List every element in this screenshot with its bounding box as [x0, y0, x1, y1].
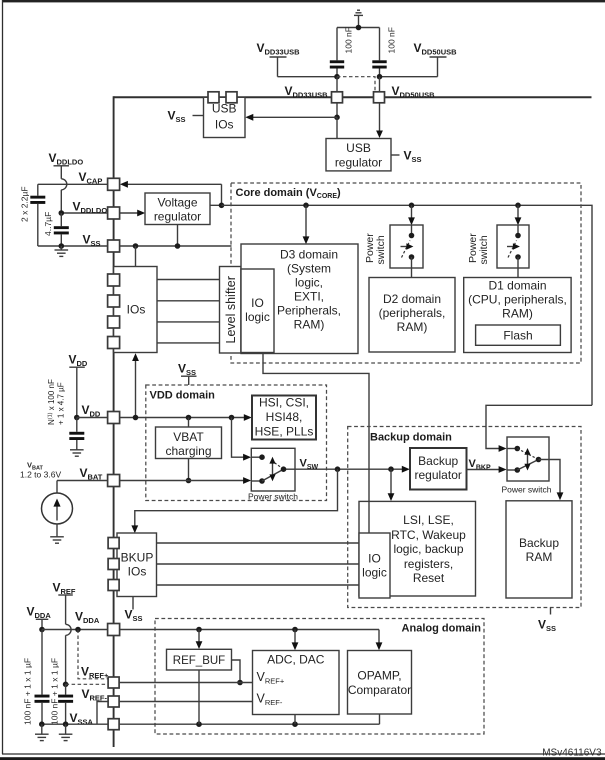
node junction at 337,117	[334, 115, 340, 121]
wire VDDA flag to pin	[42, 629, 108, 631]
svg-text:RAM): RAM)	[502, 307, 533, 321]
svg-text:Peripherals,: Peripherals,	[277, 304, 341, 318]
wire core supply rail (VCAP) to far right and down	[222, 205, 593, 405]
svg-text:Backup: Backup	[519, 536, 559, 550]
node VDD flag junction	[74, 415, 80, 421]
svg-text:Backup domain: Backup domain	[370, 432, 452, 444]
block D3 domain	[241, 244, 358, 354]
wire VSS tick below backup domain	[550, 608, 552, 615]
svg-text:HSE, PLLs: HSE, PLLs	[255, 425, 314, 439]
block IO logic (core)	[241, 269, 274, 353]
node core rail / PS2 junction	[515, 203, 521, 209]
block REF_BUF	[167, 649, 232, 670]
pin VDD	[108, 412, 120, 424]
block LSI, LSE, RTC ...	[359, 501, 476, 596]
svg-text:Flash: Flash	[503, 329, 532, 343]
svg-text:2 x 2.2µF: 2 x 2.2µF	[20, 186, 30, 222]
wire PS1 to D2 domain	[411, 257, 413, 278]
node C1 bottom junction	[334, 74, 340, 80]
pin VDDA	[108, 624, 120, 636]
pin USB IOs square 2	[226, 92, 237, 103]
svg-text:REF_BUF: REF_BUF	[173, 655, 225, 667]
ground (below right cap)	[59, 724, 73, 740]
block IO logic (backup)	[359, 533, 390, 598]
svg-text:RAM): RAM)	[397, 320, 428, 334]
svg-text:logic: logic	[362, 566, 387, 580]
svg-text:MSv46116V3: MSv46116V3	[542, 747, 602, 758]
wire VDD branch down to power switch upper input	[232, 418, 247, 458]
pin VDD33USB	[332, 92, 343, 103]
node VREF junction	[63, 682, 69, 688]
wire arrow down into REF_BUF	[198, 630, 200, 643]
wire ADC bottom to VSSA	[294, 715, 296, 725]
supply flag VDDLDO	[49, 151, 84, 213]
wire VCAP arrow line from junction to pin	[125, 183, 222, 185]
block Level shifter	[220, 267, 242, 354]
svg-text:EXTI,: EXTI,	[294, 290, 324, 304]
svg-text:(CPU, peripherals,: (CPU, peripherals,	[468, 293, 567, 307]
wire VSW output	[295, 468, 404, 470]
node VSW/BKUP junction	[335, 466, 341, 472]
wire VDDLDO junction to pin	[61, 212, 107, 214]
node VSSA/ADC junction	[292, 721, 298, 727]
svg-text:D2 domain: D2 domain	[383, 292, 441, 306]
wire VDD33USB pin down to junction	[336, 103, 338, 118]
svg-text:logic, backup: logic, backup	[393, 542, 463, 556]
pin VCAP	[108, 178, 120, 190]
node VDDA/REF_BUF junction	[196, 627, 202, 633]
pin VREF-	[108, 696, 119, 707]
node C2 bottom junction	[377, 74, 383, 80]
wire VSW junction down arrow into LSI block	[390, 469, 392, 495]
wire C2 junction to VDD50USB pin	[379, 77, 381, 92]
svg-text:LSI, LSE,: LSI, LSE,	[403, 513, 454, 527]
svg-text:Power switch: Power switch	[248, 492, 298, 502]
node VDD/power-switch junction	[229, 415, 235, 421]
ground (below left cap)	[35, 724, 49, 740]
wire left pin rail	[113, 96, 115, 747]
svg-text:Reset: Reset	[413, 571, 445, 585]
svg-text:regulator: regulator	[415, 468, 462, 482]
svg-text:4..7µF: 4..7µF	[43, 212, 53, 236]
node VDDA dashed-branch junction	[75, 627, 81, 633]
capacitor 2 x 2.2uF	[30, 184, 45, 246]
svg-text:switch: switch	[375, 235, 387, 264]
block D1 domain	[464, 278, 571, 353]
wire arrow down into D3 domain	[305, 205, 307, 237]
wire arrow into USB IOs right edge	[251, 116, 337, 118]
power switch PS4 box (backup domain)	[507, 437, 549, 481]
svg-text:(peripherals,: (peripherals,	[379, 306, 446, 320]
ground (top, above USB caps)	[354, 10, 363, 27]
block VBAT charging	[156, 427, 222, 459]
block Voltage regulator	[145, 193, 210, 225]
wire BKUP IOs to backup IO logic 1	[157, 542, 360, 544]
pin IOs square 2	[108, 295, 120, 307]
block Backup RAM	[506, 501, 572, 598]
ground (below current source)	[50, 537, 64, 543]
wire arrow down into power switch 1	[411, 205, 413, 218]
wire VBAT charging bottom to VBAT wire	[188, 459, 190, 481]
capacitor C1 100 nF	[330, 28, 344, 77]
svg-text:HSI48,: HSI48,	[266, 410, 303, 424]
wire backup power switch output to Backup RAM	[539, 460, 561, 494]
svg-text:BKUP: BKUP	[121, 551, 154, 565]
wire REF_BUF bottom to VSSA	[198, 670, 200, 724]
node VSS/IOs junction	[133, 243, 139, 249]
node VSSA/cap2 junction	[63, 721, 69, 727]
core domain dashed border	[231, 183, 581, 363]
svg-text:100 nF: 100 nF	[344, 27, 354, 53]
svg-text:Backup: Backup	[418, 454, 458, 468]
wire IO logic down / right / down to backup IO logic	[263, 353, 369, 534]
pin VREF+	[108, 677, 119, 688]
wire REF_BUF output to VREF+ wire	[232, 660, 241, 683]
wire VCAP rail feed down-left-down into backup power switch	[486, 405, 592, 448]
pin BKUP IOs square 3	[108, 580, 119, 591]
VDD domain dashed border	[146, 385, 327, 501]
svg-text:RAM): RAM)	[294, 318, 325, 332]
wire dashed optional link between VDD33USB and VDD50USB pin	[337, 77, 375, 92]
pin VSS	[108, 240, 120, 252]
block USB IOs	[204, 97, 246, 137]
node VBAT junction	[186, 478, 192, 484]
svg-text:switch: switch	[478, 235, 490, 264]
node core rail / D3 junction	[303, 203, 309, 209]
wire junction up-corner to core rail	[210, 184, 222, 205]
wire VDDA into analog domain	[120, 629, 379, 631]
wire BKUP IOs to backup IO logic 2	[157, 563, 360, 565]
node VSSA/REF_BUF junction	[196, 721, 202, 727]
wire VREF- tie down to VSSA	[97, 702, 108, 725]
svg-text:(System: (System	[287, 262, 331, 276]
node vreg output junction	[219, 203, 225, 209]
wire C1 junction to VDD33USB pin	[336, 77, 338, 92]
svg-text:IOs: IOs	[215, 118, 234, 132]
pin BKUP IOs square 2	[108, 559, 119, 570]
pin VDDLDO	[108, 207, 120, 219]
node VDDA flag junction	[39, 627, 45, 633]
supply flag VDD with decoupling	[69, 353, 88, 418]
wire IOs to level shifter 3	[157, 321, 220, 323]
svg-text:1.2 to 3.6V: 1.2 to 3.6V	[20, 470, 61, 480]
wire between caps tops	[337, 27, 380, 29]
wire VDD50USB pin down with arrow into USB regulator	[379, 103, 381, 132]
wire VBAT pin into domain with arrow to power switch lower input	[120, 480, 246, 482]
svg-text:RAM: RAM	[526, 550, 553, 564]
pin VBAT	[108, 475, 120, 487]
page frame bottom edge	[2, 753, 605, 755]
svg-text:registers,: registers,	[404, 557, 453, 571]
svg-text:regulator: regulator	[154, 210, 201, 224]
node VDDA/ADC junction	[292, 627, 298, 633]
svg-text:VDD domain: VDD domain	[150, 390, 216, 402]
power switch PS1 box	[390, 225, 423, 268]
node VDD/IOs junction	[133, 415, 139, 421]
power switch PS3 box (VDD domain)	[251, 448, 295, 491]
wire VDDLDO pin arrow into voltage regulator	[120, 212, 140, 214]
wire junction down into VBAT charging	[188, 418, 190, 428]
page frame left edge	[2, 0, 4, 754]
node VSS/cap junction	[59, 243, 65, 249]
svg-text:Power switch: Power switch	[501, 485, 551, 495]
pin BKUP IOs square 1	[108, 538, 119, 549]
wire VREF- pin to ADC	[120, 701, 253, 703]
wire VSS horizontal to core border	[38, 245, 232, 247]
block ADC, DAC	[253, 651, 340, 715]
node REF_BUF/VREF+ junction	[237, 680, 243, 686]
pin IOs square 4	[108, 337, 120, 349]
node VSSA/cap1 junction	[39, 721, 45, 727]
capacitor C2 100 nF	[372, 28, 386, 77]
wire BKUP IOs to backup IO logic 3	[157, 584, 360, 586]
svg-text:Voltage: Voltage	[157, 196, 197, 210]
wire VSW down-left-down arrow into BKUP IOs	[135, 469, 338, 527]
capacitor 4..7uF	[54, 213, 69, 246]
wire voltage regulator bottom to VSS wire	[177, 225, 179, 247]
svg-text:100 nF + 1 x 1 µF: 100 nF + 1 x 1 µF	[23, 658, 33, 725]
block BKUP IOs	[117, 533, 157, 597]
current source (battery)	[42, 493, 73, 537]
wire VSS junction down to IOs top	[135, 246, 137, 267]
backup domain dashed border	[348, 427, 581, 608]
wire IOs to level shifter 2	[157, 300, 220, 302]
wire PS2 to D1 domain	[517, 257, 519, 278]
svg-text:Level shifter: Level shifter	[224, 276, 238, 343]
svg-text:IO: IO	[251, 296, 264, 310]
svg-text:ADC, DAC: ADC, DAC	[267, 653, 325, 667]
wire junction down to USB regulator top	[336, 117, 338, 138]
capacitor 100 nF + 1 x 1 uF (left, VDDA)	[35, 630, 50, 725]
supply flag VDD33USB	[257, 41, 338, 77]
wire VSSA left segment	[42, 723, 108, 725]
wire VSS tie to USB IOs	[193, 115, 204, 117]
power switch PS2 box	[497, 225, 529, 268]
wire arrow down into ADC, DAC	[294, 630, 296, 645]
block HSI, CSI, HSI48, HSE, PLLs	[252, 396, 316, 440]
svg-text:+ 1 x 4.7 µF: + 1 x 4.7 µF	[57, 382, 66, 425]
pin VDD50USB	[374, 92, 385, 103]
analog domain dashed border	[155, 619, 484, 735]
svg-text:Comparator: Comparator	[348, 683, 411, 697]
node VDD/VBAT-charging junction	[186, 415, 192, 421]
bottom black bar	[0, 757, 605, 760]
pin IOs square 3	[108, 316, 120, 328]
block OPAMP, Comparator	[348, 651, 412, 715]
wire VDD flag to pin	[77, 417, 108, 419]
capacitor 100 nF + 1 x 1 uF (right, VREF)	[58, 684, 73, 724]
wire IOs to level shifter 1	[157, 279, 220, 281]
block USB regulator	[326, 139, 391, 171]
svg-text:HSI, CSI,: HSI, CSI,	[259, 396, 309, 410]
node core rail / PS1 junction	[409, 203, 415, 209]
wire core IO logic feed over LSI box to backup IO logic	[368, 501, 370, 533]
supply flag VDD50USB	[380, 41, 458, 77]
wire VDD up into IOs bottom (arrow)	[135, 360, 137, 418]
block D2 domain	[369, 278, 455, 353]
supply flag VREF	[53, 581, 76, 685]
node VDDLDO junction	[59, 210, 65, 216]
block Backup regulator	[410, 448, 467, 490]
svg-text:RTC, Wakeup: RTC, Wakeup	[391, 528, 466, 542]
wire top rail	[114, 96, 592, 98]
svg-text:100 nF: 100 nF	[387, 27, 397, 53]
node VSS/vreg junction	[175, 243, 181, 249]
supply flag VSS (above VDD domain)	[178, 362, 197, 386]
block Flash	[476, 325, 561, 345]
wire dashed VDDA to VREF+ pin	[78, 630, 108, 679]
wire VSSA into analog domain	[120, 723, 380, 725]
wire corner down arrow into OPAMP	[378, 630, 380, 645]
page frame top bar	[2, 0, 605, 2]
wire IOs to level shifter 4	[157, 342, 220, 344]
wire dashed VREF to VREF+ pin	[66, 683, 108, 685]
svg-text:IOs: IOs	[127, 303, 146, 317]
supply flag VDDA	[27, 605, 52, 630]
svg-text:logic,: logic,	[295, 276, 323, 290]
svg-text:D3 domain: D3 domain	[280, 248, 338, 262]
wire arrow down into power switch 2	[517, 205, 519, 218]
wire VBKP to backup power switch lower input	[467, 469, 501, 471]
svg-text:D1 domain: D1 domain	[488, 279, 546, 293]
svg-text:USB: USB	[346, 141, 371, 155]
svg-text:Analog domain: Analog domain	[402, 623, 482, 635]
pin IOs square 1	[108, 274, 120, 286]
ground (below 4..7uF cap)	[55, 246, 69, 256]
node VSW/LSI junction	[388, 466, 394, 472]
pin VSSA	[108, 719, 119, 730]
wire VCAP pin left to cap branch	[38, 183, 108, 185]
ground (below VDD cap)	[70, 450, 84, 456]
svg-text:OPAMP,: OPAMP,	[357, 669, 401, 683]
node top junction	[356, 25, 362, 31]
svg-text:VBAT: VBAT	[173, 430, 204, 444]
svg-text:logic: logic	[245, 310, 270, 324]
wire VREF+ pin to ADC	[120, 682, 253, 684]
wire VBAT pin left to current source	[57, 480, 108, 482]
block IOs	[114, 267, 157, 353]
svg-text:100 nF + 1 x 1 µF: 100 nF + 1 x 1 µF	[50, 658, 60, 725]
wire VSS tick below BKUP IOs	[132, 597, 134, 610]
svg-text:IO: IO	[368, 552, 381, 566]
capacitor N x 100 nF + 1 x 4.7 uF	[69, 418, 84, 450]
wire VSSA up to OPAMP bottom	[379, 714, 381, 724]
svg-text:charging: charging	[165, 444, 211, 458]
pin USB IOs square 1	[208, 92, 219, 103]
svg-text:IOs: IOs	[128, 565, 147, 579]
wire VSS tie of USB regulator	[391, 154, 400, 156]
wire VDD pin into domain with arrow to HSI	[120, 417, 246, 419]
svg-text:regulator: regulator	[335, 156, 382, 170]
